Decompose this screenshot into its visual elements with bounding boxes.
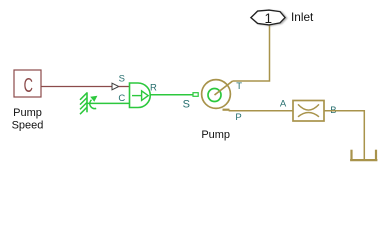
- svg-text:C: C: [24, 75, 33, 97]
- svg-text:Speed: Speed: [12, 120, 44, 132]
- svg-text:Pump: Pump: [201, 129, 230, 141]
- svg-text:R: R: [150, 83, 157, 94]
- svg-text:Inlet: Inlet: [291, 10, 314, 24]
- svg-text:T: T: [236, 81, 242, 92]
- svg-text:C: C: [118, 93, 125, 104]
- svg-text:S: S: [119, 74, 125, 85]
- svg-text:P: P: [235, 112, 241, 123]
- svg-text:A: A: [280, 99, 287, 110]
- svg-text:S: S: [183, 98, 190, 110]
- svg-text:Pump: Pump: [13, 107, 42, 119]
- svg-text:1: 1: [265, 11, 273, 26]
